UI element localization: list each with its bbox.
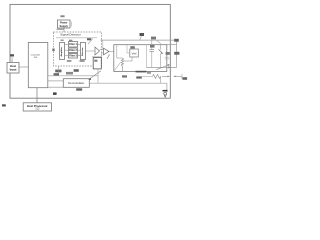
filter F1 (stacked box 1) <box>69 42 78 48</box>
label on dashed left edge <box>52 49 54 52</box>
label inside-bottom left <box>67 60 72 62</box>
wire top to Vref branch <box>126 45 128 53</box>
inner divider line <box>56 37 97 39</box>
power supply box U1 <box>58 20 71 28</box>
svg-text:Vref: Vref <box>132 51 137 55</box>
resistor R2 (box bottom to demod rail) <box>142 74 161 83</box>
signal detector dashed box <box>54 32 102 66</box>
stub dashed box bottom to bus <box>58 66 60 76</box>
capacitor C2 on right edge <box>165 52 170 59</box>
host processor box (bottom) <box>23 103 51 111</box>
rail label 250 with leader <box>140 33 145 40</box>
label above Vref <box>130 46 135 48</box>
svg-text:Amplifier: Amplifier <box>60 47 63 57</box>
bracket right of power supply <box>70 22 72 27</box>
label above antenna box with arrow <box>10 54 14 62</box>
filter F2 (stacked box 2) <box>69 48 78 53</box>
label above power supply <box>60 15 64 17</box>
filter F3 (stacked box 3) <box>69 54 78 59</box>
leader inside regulator bottom-left <box>114 62 120 70</box>
wires filters to mux <box>78 43 81 45</box>
smudge near R2 <box>147 72 151 74</box>
controller box <box>28 43 48 88</box>
demodulator output wire <box>89 82 167 84</box>
diagonal arrow to border <box>156 64 170 70</box>
label below regulator left <box>122 75 127 77</box>
comparator A1 (small triangle) <box>95 47 100 55</box>
svg-text:Selector: Selector <box>81 47 84 56</box>
svg-text:212: 212 <box>35 108 40 111</box>
label at wire end <box>163 90 168 92</box>
svg-text:Filter 2: Filter 2 <box>69 49 77 52</box>
wire op-amp to regulator box <box>109 51 114 53</box>
antenna interface box (left, on border) <box>7 63 19 74</box>
label outside right <box>183 77 188 80</box>
tap rail to op-amp input <box>102 40 104 50</box>
label on bus <box>54 73 60 75</box>
label left of R2 <box>136 76 142 78</box>
wires input buffer to filters <box>65 43 69 45</box>
output mux (right tall box) <box>81 43 86 60</box>
svg-text:Supply: Supply <box>60 25 69 28</box>
rail stub outside (upper) <box>167 43 177 45</box>
resistor R1 (vertical zigzag) <box>121 58 123 71</box>
svg-text:Signal Detector: Signal Detector <box>60 33 81 37</box>
branch wire <box>145 45 147 68</box>
label above filter 1 <box>69 40 72 42</box>
label below regulator right <box>136 71 147 73</box>
label 240 <box>53 92 57 95</box>
diode D1 branch <box>159 45 164 68</box>
antenna line (external vertical) <box>176 40 178 67</box>
label inside-bottom right <box>80 60 85 62</box>
arrow to demodulator output node <box>88 71 101 80</box>
regulator box <box>114 45 167 72</box>
arrow pair at border (outside) <box>173 74 182 79</box>
label below demodulator <box>76 88 82 90</box>
label 228 below dashed box <box>55 70 61 73</box>
wire antenna box to controller <box>19 66 28 68</box>
wire Vref down-left to resistor <box>122 57 132 61</box>
wire controller lower <box>48 86 64 88</box>
connector symbol (circle + chevron) <box>164 92 167 97</box>
lower rail with arrow <box>147 66 177 68</box>
antenna terminal label upper <box>174 39 179 42</box>
capacitor label <box>150 45 155 48</box>
wire power supply to signal detector <box>63 28 65 32</box>
demodulator box <box>63 79 89 88</box>
RF rail upper <box>101 39 177 41</box>
op-amp adjust arrow <box>107 54 110 59</box>
label above input buffer <box>61 40 64 42</box>
regulator inner wire L <box>116 45 118 58</box>
svg-text:Demodulator: Demodulator <box>68 81 84 85</box>
svg-text:Input: Input <box>10 67 17 71</box>
op-amp input stubs <box>100 49 104 51</box>
wire mux to comparator <box>86 50 96 52</box>
label below power supply <box>57 29 65 30</box>
input buffer (left tall box) <box>60 43 65 60</box>
capacitor C1 branch <box>150 40 155 67</box>
svg-text:Filter 1: Filter 1 <box>69 43 77 46</box>
rail label 251 <box>151 37 161 44</box>
svg-text:Filter 3: Filter 3 <box>69 55 77 58</box>
device outer border <box>10 4 170 98</box>
label 200 (bottom-left) <box>2 104 6 106</box>
arrow pair at border (inside) <box>162 76 170 78</box>
wire dashed box to demod output <box>97 69 99 83</box>
op-amp feedback stub <box>92 55 102 57</box>
wire demod output down at right <box>166 83 168 92</box>
label above mux with leader <box>87 38 93 44</box>
label 230 below dashed box <box>74 69 79 72</box>
antenna terminal label lower <box>174 52 179 55</box>
Vref box <box>130 49 139 57</box>
wire controller to host box (down) <box>36 88 38 103</box>
wire controller to demodulator <box>48 80 64 82</box>
op-amp A2 <box>104 48 110 55</box>
wire controller to bus (upper) <box>48 75 98 77</box>
latch box at signal detector output <box>93 58 101 69</box>
